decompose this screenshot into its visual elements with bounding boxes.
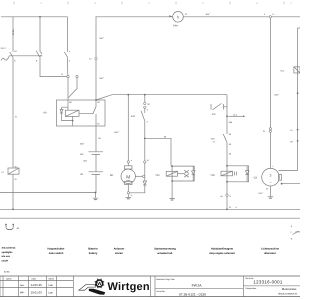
wire top bus right segment [96, 16, 173, 18]
connector X30 [144, 102, 146, 104]
diode V2 [143, 181, 147, 185]
contact K20 [223, 134, 227, 143]
junction Y30 bottom [226, 181, 228, 183]
wire diode to motor foot [130, 185, 145, 193]
wire connector to motor [127, 163, 129, 166]
svg-text:Hauptschalter: Hauptschalter [48, 247, 65, 250]
sheet exit arrow [293, 231, 301, 234]
wire G3 W to bus [282, 183, 300, 185]
wire connector W to diode [144, 163, 146, 181]
junction node B+ [297, 92, 299, 94]
svg-text:Hubabstellmagnet: Hubabstellmagnet [211, 247, 233, 250]
wire 30a corner down [226, 95, 228, 134]
connector motor right [143, 175, 145, 177]
wire arrow 15.1 [228, 115, 243, 117]
svg-text:M1: M1 [110, 174, 114, 177]
junction node DF [297, 140, 299, 142]
wire top bus left segment [1, 16, 68, 18]
svg-text:PW.2A.: PW.2A. [192, 283, 203, 287]
wire stub to connector 30 [144, 95, 146, 103]
motor M1 lower terminal [125, 181, 133, 184]
connector X12 [95, 57, 97, 59]
Y30 coil [221, 171, 233, 176]
svg-text:Wirtgen: Wirtgen [108, 281, 150, 293]
wire right edge B+ [298, 28, 300, 171]
small labels [1, 12, 294, 240]
svg-text:W: W [266, 188, 268, 191]
battery G2 [89, 152, 104, 155]
wire S42/2 down and right [40, 57, 67, 76]
svg-text:Designation:: Designation: [246, 287, 258, 290]
bus line 31 [0, 217, 300, 219]
wire fuse drop F1 [12, 17, 14, 52]
svg-text:gep.: gep. [20, 291, 25, 294]
wire to switch S43 [144, 109, 146, 114]
svg-text:W: W [97, 281, 102, 286]
switch S11.2 link wire [1, 56, 42, 61]
relay K9 coil [65, 110, 79, 116]
junction Y30 bus [226, 208, 228, 210]
svg-text:bea.: bea. [20, 284, 25, 287]
svg-text:G3: G3 [254, 177, 258, 180]
svg-text:starter: starter [115, 252, 123, 255]
svg-text:07.26-0121 - 0130: 07.26-0121 - 0130 [179, 292, 206, 296]
solenoid Y30 enclosure [227, 166, 249, 182]
B2 symbol dots [5, 224, 6, 225]
junction bus node 40 [39, 16, 41, 18]
svg-text:stop engine solenoid: stop engine solenoid [209, 252, 235, 255]
relay K9 enclosure [57, 100, 106, 126]
wire bus corner drop to connector 12 [95, 17, 97, 57]
wire motor right stub [135, 175, 142, 177]
fuse S41 [294, 67, 300, 73]
svg-text:actuated ind.: actuated ind. [157, 252, 173, 255]
wire K9 interior links [62, 100, 93, 126]
svg-text:Motorwalze: Motorwalze [282, 287, 297, 291]
Y40 diode [192, 166, 196, 181]
svg-text:W: W [147, 159, 149, 162]
svg-text:29.01.03: 29.01.03 [31, 291, 42, 295]
ground battery [93, 193, 98, 199]
svg-text:Serial No.:: Serial No.: [156, 290, 166, 293]
wire connector X11 to relay pin 86 [67, 78, 69, 100]
switch contact S42/2 [37, 52, 40, 57]
wire S42/3 to connector X11 [67, 57, 69, 75]
logo gear [95, 279, 103, 287]
title block texts [4, 271, 298, 297]
switch contact S42/1 [10, 52, 13, 57]
junction K1 bus [12, 208, 14, 210]
meter P6A inlet arrow [169, 15, 172, 17]
switch S30 [211, 103, 227, 110]
arrowhead 15.1 [243, 115, 245, 117]
svg-text:B2 B6: B2 B6 [4, 271, 10, 274]
ground G3 [268, 196, 273, 198]
symbol B2 [6, 225, 13, 230]
svg-text:spotlights: spotlights [2, 251, 14, 254]
wire node to Y40 branch [145, 138, 171, 165]
Y40 override symbol [184, 170, 189, 177]
svg-text:on/off: on/off [2, 259, 9, 262]
diode V1 in K9 [60, 107, 63, 120]
wire Y40 feed [171, 165, 172, 168]
wire connector 12 to relay pin 30 [95, 60, 97, 100]
svg-text:Anlasser: Anlasser [114, 247, 125, 250]
connector X30b [144, 106, 146, 108]
svg-text:3: 3 [270, 173, 272, 177]
title block frame [0, 276, 300, 297]
svg-text:Lan: Lan [49, 291, 54, 294]
valve Y40 enclosure [172, 166, 194, 181]
wire drop to motor connector [127, 95, 129, 161]
logo Wirtgen [79, 278, 150, 294]
bus line 31a [0, 208, 300, 210]
junction node 50 [226, 115, 228, 117]
junction G3 W [281, 183, 283, 185]
top frame column ticks [14, 2, 284, 5]
motor M1 terminal [125, 166, 133, 169]
connector X11 pin a [67, 75, 69, 77]
wire motor to ground node [127, 185, 129, 192]
switch contact S43 [141, 111, 145, 121]
junction Y40 bottom [171, 180, 173, 182]
logo swoosh band [79, 284, 96, 290]
ground Y40 [169, 181, 174, 199]
junction relay pin 30 [95, 99, 97, 101]
wire G3 D+ to edge [279, 170, 298, 172]
svg-text:M: M [126, 174, 130, 180]
svg-text:S11.2: S11.2 [1, 47, 7, 50]
alternator G3 terminal block [279, 175, 282, 181]
Y30 diode [245, 166, 249, 182]
svg-text:Maschine Reg.Code:: Maschine Reg.Code: [156, 278, 175, 281]
wire G3 to ground [270, 186, 272, 197]
wire G2 to G1 [95, 154, 97, 171]
logo dark tail [89, 289, 105, 295]
svg-text:Batterie: Batterie [88, 247, 98, 250]
wire S42/1 down [12, 57, 14, 168]
wire relay 30 rise to bus 30a [96, 95, 227, 100]
svg-text:P6A: P6A [173, 25, 178, 28]
Y40 coil [166, 171, 177, 176]
wire S43 to node [144, 121, 146, 137]
junction Y40 top [171, 165, 173, 167]
svg-text:battery: battery [89, 252, 98, 255]
svg-text:B: B [15, 116, 17, 119]
junction node D+ [297, 129, 299, 131]
svg-text:electr.compon.w.: electr.compon.w. [278, 293, 298, 296]
svg-text:w/o aux: w/o aux [2, 255, 11, 258]
connector XW [144, 161, 146, 163]
motor M1 body [121, 169, 135, 183]
wire node down to connector W [144, 138, 146, 160]
junction Y30 top [226, 165, 228, 167]
svg-text:Y30: Y30 [210, 174, 215, 177]
connector X31 [269, 128, 271, 130]
svg-text:Lan: Lan [49, 284, 54, 287]
svg-text:123316-0001: 123316-0001 [253, 280, 282, 285]
wire alternator feed from bus [269, 17, 271, 128]
connector X11 pin b [76, 75, 78, 77]
svg-text:Y40: Y40 [155, 174, 160, 177]
junction S43 feed [144, 94, 146, 96]
ground M1 [126, 194, 131, 197]
coil K1 on left wire [8, 168, 19, 174]
alternator G3 body [262, 168, 280, 186]
wire connector to alternator [269, 132, 271, 168]
junction K9 coil return [72, 120, 74, 122]
svg-text:Name: Name [6, 277, 12, 280]
wire K20 to Y30 [226, 143, 228, 166]
svg-text:main switch: main switch [49, 252, 64, 255]
description row [2, 247, 280, 263]
wire ground rail 31 [0, 192, 96, 194]
svg-text:14.05.96: 14.05.96 [31, 283, 42, 287]
connector motor top [127, 161, 129, 163]
junction node 50a [144, 137, 146, 139]
wire relay 87 to battery [95, 126, 97, 152]
svg-text:S43: S43 [131, 115, 136, 118]
svg-text:alternator: alternator [264, 252, 276, 255]
wire K1 to bus [12, 174, 14, 209]
svg-text:Startanwaermung: Startanwaermung [154, 247, 176, 250]
wire Y30 to bus [226, 182, 228, 194]
svg-text:15.6A: 15.6A [12, 29, 15, 35]
wire bus drop at node 40 [39, 17, 41, 52]
wire S42/3 drop from bus corner [67, 17, 69, 52]
svg-text:Arb.scheinw.: Arb.scheinw. [2, 247, 17, 250]
connector X45 [226, 194, 228, 196]
svg-text:Lichtmaschine: Lichtmaschine [261, 247, 279, 250]
wire from connector X11/2 bent to pin 86 [69, 78, 78, 98]
wire G1 to ground rail [95, 174, 97, 192]
svg-text:h: h [177, 15, 179, 20]
connector X1 on bus [269, 16, 271, 18]
junction motor feed [127, 94, 129, 96]
relay K9 contact [93, 106, 96, 114]
junction battery ground [95, 192, 97, 194]
switch contact S42/3 [64, 52, 67, 57]
connector motor ground node [127, 192, 129, 194]
meter P6A [173, 11, 184, 22]
svg-text:Name: Name [49, 277, 55, 280]
Y40 link [178, 173, 185, 175]
battery G1 [89, 172, 104, 175]
